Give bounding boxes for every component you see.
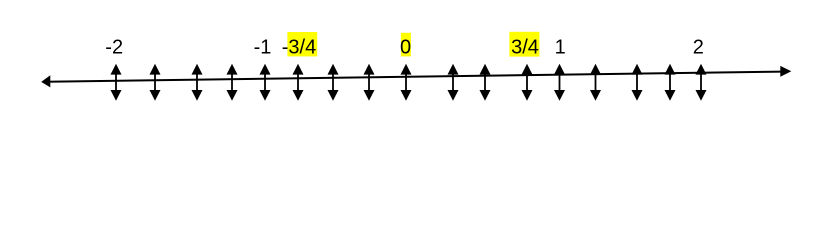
svg-text:-3/4: -3/4: [282, 36, 316, 58]
svg-text:0: 0: [400, 36, 411, 58]
svg-text:2: 2: [693, 36, 704, 58]
svg-text:-1: -1: [254, 36, 272, 58]
svg-text:1: 1: [555, 36, 566, 58]
svg-text:3/4: 3/4: [511, 36, 539, 58]
svg-text:-2: -2: [105, 36, 123, 58]
